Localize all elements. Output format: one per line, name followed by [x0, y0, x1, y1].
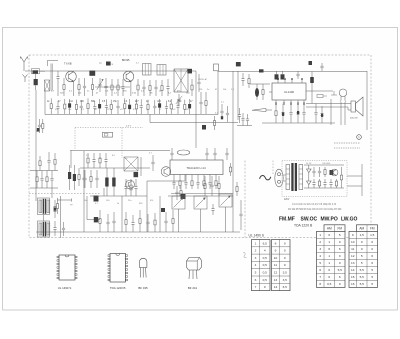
svg-text:0,5: 0,5	[263, 256, 268, 260]
pot P2	[172, 196, 185, 209]
electrolytic Eb3	[68, 103, 71, 107]
res right a	[236, 182, 238, 187]
resistor R8	[161, 80, 163, 86]
ground rail top section	[45, 114, 218, 116]
svg-text:11: 11	[274, 263, 277, 267]
earphone jack	[331, 94, 337, 96]
filter cap C32	[319, 167, 321, 171]
package UL1490S	[59, 255, 75, 280]
res comp L3	[78, 168, 80, 175]
svg-text:4: 4	[255, 263, 257, 267]
wire y219	[86, 196, 88, 220]
left col blip	[37, 128, 40, 132]
dark cap above IC a	[275, 74, 279, 79]
U2 pin 7	[209, 175, 211, 178]
svg-text:5,5: 5,5	[360, 282, 365, 286]
res right of IC	[230, 163, 232, 167]
decoupling C24	[290, 104, 292, 113]
svg-text:3,5: 3,5	[283, 271, 288, 275]
U1 top pin 1	[277, 79, 279, 83]
cap Ct1	[93, 153, 95, 160]
schematic dashed frame	[29, 55, 371, 238]
cap C9b	[198, 74, 200, 82]
res R32	[324, 167, 326, 170]
cap bottom mid	[165, 212, 167, 221]
cap Cp2	[185, 178, 187, 183]
svg-text:BF195: BF195	[122, 59, 130, 62]
xcross transformer	[124, 157, 138, 171]
svg-text:1,5: 1,5	[370, 233, 375, 237]
dark res a	[105, 178, 108, 187]
capacitor C8	[167, 79, 169, 87]
svg-text:0: 0	[284, 241, 286, 245]
pot P3	[194, 196, 207, 209]
svg-text:6,5: 6,5	[263, 241, 268, 245]
svg-text:7: 7	[319, 275, 321, 279]
capacitor C13	[239, 108, 241, 115]
svg-text:TDA1220 U-14: TDA1220 U-14	[186, 166, 206, 170]
transformer core	[291, 163, 293, 191]
svg-text:1: 1	[328, 261, 330, 265]
input electrolytic	[255, 88, 259, 97]
wire v218	[217, 72, 219, 115]
capacitor C11	[221, 104, 223, 111]
capacitor C2	[57, 71, 59, 77]
dark blob e	[181, 194, 186, 199]
audio ground rail	[262, 122, 335, 124]
left rail a	[30, 170, 58, 172]
svg-text:11: 11	[351, 247, 354, 251]
earphone legs long	[340, 102, 342, 125]
res Rv1	[130, 179, 132, 185]
capacitor Cb1	[57, 101, 59, 107]
resistor Rb2	[64, 99, 66, 104]
electrolytic above U2	[177, 150, 190, 155]
wire rail drop a	[44, 90, 46, 115]
svg-text:6: 6	[328, 247, 330, 251]
osc transformer TR1	[174, 69, 188, 92]
cluster pins right	[176, 186, 178, 192]
electrolytic blob 3	[236, 62, 241, 66]
svg-text:4: 4	[264, 249, 266, 253]
package BF195	[140, 258, 147, 267]
wire v84	[83, 151, 85, 232]
table UL1490S left half	[252, 240, 271, 291]
svg-text:6: 6	[328, 233, 330, 237]
rect diode D2	[307, 169, 312, 173]
svg-text:BF 195: BF 195	[138, 286, 148, 290]
filter cap C34	[330, 179, 332, 183]
svg-text:6,5: 6,5	[283, 285, 288, 289]
wire v312	[311, 72, 313, 104]
cap Cv0	[125, 179, 127, 187]
U2 pin 6	[203, 175, 205, 178]
wire plug	[283, 174, 285, 176]
filter cap C31	[313, 179, 315, 183]
svg-text:13: 13	[351, 261, 355, 265]
dotted drop mid	[121, 128, 123, 159]
U2 pin 3	[185, 175, 187, 178]
right box border	[366, 71, 368, 130]
IF can 1	[143, 64, 152, 76]
svg-text:6: 6	[371, 254, 373, 258]
capacitor Cb5	[80, 100, 82, 106]
svg-text:4: 4	[319, 254, 321, 258]
comp edge b	[63, 222, 65, 228]
cap C27	[321, 106, 323, 114]
wire right mid	[330, 99, 332, 125]
svg-text:AM: AM	[359, 226, 364, 230]
left rail b	[30, 187, 58, 189]
left col comp low	[39, 156, 41, 161]
dark blob low	[202, 125, 206, 130]
res R33	[336, 179, 338, 181]
svg-text:8: 8	[319, 282, 321, 286]
cap right b	[240, 200, 242, 214]
component above rail	[214, 64, 219, 71]
svg-text:SW.OC: SW.OC	[301, 217, 318, 223]
svg-text:8: 8	[275, 241, 277, 245]
U2 pin 8	[215, 175, 217, 178]
IC U2 TDA1220	[170, 160, 223, 175]
svg-text:3: 3	[319, 247, 321, 251]
IF transformer A	[38, 198, 50, 215]
component above rail right	[321, 63, 323, 66]
res bottom c	[154, 213, 156, 220]
svg-text:1k: 1k	[117, 203, 119, 205]
cap above U2 c	[214, 148, 216, 153]
svg-text:AM: AM	[327, 226, 332, 230]
U1 bottom pin 8	[297, 100, 299, 104]
table TDA left half	[317, 231, 346, 287]
svg-text:1: 1	[328, 240, 330, 244]
capacitor Cb21	[177, 99, 179, 106]
table TDA header right	[357, 225, 378, 232]
cap Cu0	[84, 170, 86, 178]
svg-text:UL 1490 S: UL 1490 S	[249, 233, 265, 237]
resistor R3	[92, 78, 94, 85]
wire main top rail B	[218, 71, 368, 73]
open frame	[147, 180, 185, 182]
cap above U2 b	[206, 148, 208, 153]
decoupling C25	[297, 104, 299, 113]
svg-text:0: 0	[284, 256, 286, 260]
svg-text:0: 0	[371, 240, 373, 244]
dark cap above IC b	[281, 74, 285, 79]
U2 pin 1	[173, 175, 175, 178]
svg-text:0: 0	[339, 261, 341, 265]
cap bottom b2	[132, 215, 134, 223]
package TDA1220B	[110, 254, 126, 283]
hand mark	[243, 252, 247, 257]
svg-text:FM: FM	[337, 226, 342, 230]
cap Cu2	[96, 170, 98, 178]
svg-text:5: 5	[371, 282, 373, 286]
left col cap	[39, 119, 41, 125]
svg-text:9: 9	[275, 249, 277, 253]
antenna	[21, 57, 28, 72]
resistor Rb22	[184, 100, 186, 105]
wire bottom drops	[121, 196, 123, 232]
U1 bottom pin 9	[303, 100, 305, 104]
electrolytic Eb23	[188, 104, 191, 108]
dark blob mid	[161, 208, 165, 212]
svg-text:5: 5	[319, 261, 321, 265]
U1 bottom pin 7	[290, 100, 292, 104]
svg-text:5: 5	[255, 271, 257, 275]
res RL0	[36, 171, 38, 177]
svg-text:5: 5	[361, 261, 363, 265]
res R31	[319, 179, 321, 181]
svg-text:FM: FM	[370, 226, 375, 230]
capacitor C20	[242, 73, 244, 79]
svg-text:0: 0	[284, 263, 286, 267]
rail lower mid	[150, 122, 238, 124]
input res	[262, 84, 264, 90]
cap right of IC	[226, 148, 228, 153]
svg-text:4Ω0,5W: 4Ω0,5W	[350, 117, 358, 119]
package BF241	[187, 258, 202, 271]
cap low b	[247, 114, 249, 119]
U1 top pin 2	[284, 79, 286, 83]
audio IC U1 UL1490	[272, 83, 306, 100]
svg-text:0: 0	[284, 249, 286, 253]
wire c2 down	[57, 84, 59, 96]
dashed divider power section	[244, 161, 246, 238]
svg-text:OSCILLAT: OSCILLAT	[198, 78, 208, 81]
res Rt0	[87, 153, 89, 158]
svg-text:6: 6	[255, 278, 257, 282]
svg-text:1,5: 1,5	[360, 233, 365, 237]
wire out top	[306, 90, 333, 92]
dark psu blob	[330, 170, 334, 175]
pot P4	[219, 194, 232, 207]
svg-text:16: 16	[351, 282, 355, 286]
wire T1 emitter	[72, 81, 74, 96]
left col res	[42, 119, 44, 124]
blob on rail	[259, 69, 264, 72]
resistor Rb14	[135, 99, 137, 104]
svg-text:0: 0	[371, 247, 373, 251]
wire drop to lower rail	[149, 115, 151, 123]
wire osc drop	[195, 71, 197, 123]
side comp col a	[54, 200, 56, 207]
cap bottom a2	[113, 212, 115, 221]
plug	[275, 169, 283, 187]
dark comp L2	[73, 174, 76, 181]
svg-text:5,5: 5,5	[338, 268, 343, 272]
dark blob d	[134, 172, 139, 177]
svg-text:UL1490: UL1490	[284, 90, 295, 94]
dark comp L5	[94, 217, 98, 222]
svg-text:D1 D2: D1 D2	[306, 163, 311, 165]
svg-text:C1-C4 10n C2 22n C3 4n7 C5 100: C1-C4 10n C2 22n C3 4n7 C5 100p R1 4,7k	[292, 204, 337, 206]
capacitor Cb7	[94, 101, 96, 107]
table UL1490S right half	[272, 240, 291, 291]
cap above rail L	[48, 152, 50, 160]
svg-text:1: 1	[319, 233, 321, 237]
svg-text:6: 6	[339, 275, 341, 279]
svg-text:7: 7	[255, 285, 257, 289]
svg-text:10n: 10n	[84, 200, 87, 202]
cap low a	[242, 113, 244, 118]
svg-text:14: 14	[351, 268, 355, 272]
wire left v60	[60, 196, 62, 238]
svg-text:T 6 KB: T 6 KB	[64, 63, 72, 66]
U2 pin 5	[197, 175, 199, 178]
tuner ground rail	[90, 195, 147, 197]
tiny text row b	[334, 147, 360, 149]
wire stub y200	[57, 199, 72, 201]
transformer primary	[286, 165, 290, 190]
res above rail L	[54, 153, 56, 159]
resistor Rb6	[87, 98, 89, 103]
svg-text:4,5 V: 4,5 V	[126, 126, 132, 128]
capacitor C4	[105, 78, 107, 86]
cap CL3	[51, 171, 53, 179]
svg-text:47k: 47k	[150, 200, 153, 202]
svg-text:6: 6	[328, 268, 330, 272]
U1 bottom pin 5	[275, 100, 277, 104]
res Rp5	[203, 178, 205, 181]
table TDA header left	[324, 225, 345, 232]
power rail top	[304, 164, 344, 166]
svg-text:2: 2	[255, 249, 257, 253]
svg-text:LW.GO: LW.GO	[341, 217, 358, 223]
capacitor C7	[155, 80, 157, 87]
resistor R5	[117, 79, 119, 85]
capacitor Cb9	[105, 99, 107, 106]
svg-text:TDA 1220 B: TDA 1220 B	[110, 286, 126, 290]
trim capacitor CV2	[178, 94, 180, 99]
coil L1	[33, 70, 39, 73]
svg-text:R4 10k R5 560 R6 8,2k C8-C9 47: R4 10k R5 560 R6 8,2k C8-C9 47n C10 100µ…	[288, 209, 342, 211]
bottom rail	[36, 231, 240, 233]
capacitor C5	[122, 79, 124, 87]
capacitor Cb17	[154, 100, 156, 106]
U2 pin 4	[191, 175, 193, 178]
IF can 2	[157, 65, 166, 76]
decoupling C25b	[303, 104, 305, 113]
decoupling C22	[282, 104, 284, 113]
svg-text:0: 0	[339, 240, 341, 244]
resistor Rb16	[147, 100, 149, 105]
wire T2 emitter	[130, 81, 132, 96]
capacitor C6	[143, 80, 145, 87]
transformer secondary	[299, 165, 303, 190]
comp edge a	[57, 198, 59, 204]
dotted line mid	[75, 127, 143, 129]
svg-text:5: 5	[339, 233, 341, 237]
rect diode D3	[307, 181, 312, 185]
svg-text:BF 241: BF 241	[188, 286, 198, 290]
svg-text:1: 1	[255, 241, 257, 245]
svg-text:0,5: 0,5	[263, 263, 268, 267]
capacitor Cb11	[117, 100, 119, 106]
svg-text:UL 1490 S: UL 1490 S	[58, 286, 72, 290]
res RL2	[46, 171, 48, 177]
wire main top rail A	[25, 70, 196, 72]
resistor Rb20	[170, 99, 172, 104]
wire x196 to U2	[195, 123, 197, 149]
cap bottom a	[107, 214, 109, 222]
diode D1	[34, 79, 38, 85]
resistor R11b	[214, 116, 216, 121]
U1 top pin 4	[301, 79, 303, 83]
svg-text:0,5: 0,5	[263, 278, 268, 282]
resistor Rb4	[75, 100, 77, 105]
svg-text:0: 0	[361, 240, 363, 244]
res Rp1	[179, 178, 181, 181]
svg-text:10: 10	[351, 240, 355, 244]
cap CL1	[41, 171, 43, 179]
resistor R1	[63, 78, 65, 85]
base wire	[95, 86, 130, 88]
wire v141	[140, 157, 142, 176]
res Ru1	[90, 170, 92, 177]
resistor R6	[137, 79, 139, 85]
cap above U2 a	[171, 148, 173, 153]
dashed stub mains	[272, 161, 274, 175]
svg-text:5,5: 5,5	[360, 275, 365, 279]
reg transistor Q1	[331, 169, 338, 176]
cap left of IC	[152, 155, 154, 162]
power inner rail	[304, 187, 344, 189]
dotted drop left	[74, 128, 76, 151]
svg-text:6: 6	[371, 261, 373, 265]
wire input	[250, 83, 270, 85]
earphone	[339, 89, 347, 97]
svg-text:6: 6	[339, 247, 341, 251]
svg-text:1n: 1n	[125, 158, 127, 160]
tiny text row a	[334, 142, 360, 144]
capacitor Cb15	[140, 99, 142, 106]
cap Ct3	[105, 153, 107, 160]
AC symbol	[260, 175, 271, 179]
capacitor C12	[227, 106, 229, 113]
res bottom b	[125, 212, 127, 220]
psu dashed box	[282, 161, 347, 197]
capacitor C9	[200, 92, 202, 102]
svg-text:0,5: 0,5	[263, 271, 268, 275]
capacitor C3	[84, 78, 86, 86]
meter box	[103, 132, 113, 137]
volume wiper	[252, 108, 266, 111]
IF transformer B	[38, 221, 50, 237]
svg-text:13: 13	[274, 278, 278, 282]
svg-text:9: 9	[352, 233, 354, 237]
feedback cap Cf3	[297, 71, 299, 74]
svg-text:0: 0	[339, 282, 341, 286]
side comp col b	[54, 221, 56, 228]
resistor R2	[78, 78, 80, 85]
pot wire top	[171, 193, 233, 195]
dark blob c	[94, 196, 99, 202]
svg-text:1k: 1k	[146, 109, 148, 111]
U1 top pin 3	[291, 79, 293, 83]
electrolytic blob	[89, 71, 95, 76]
wire to speaker	[306, 103, 351, 105]
short gnd	[237, 125, 252, 127]
svg-text:MW.PO: MW.PO	[321, 217, 338, 223]
speaker LS	[351, 101, 356, 112]
filter cap C30	[313, 167, 315, 171]
resistor R7	[149, 80, 151, 86]
resistor Rb12	[124, 98, 126, 103]
svg-text:6: 6	[319, 268, 321, 272]
res bottom b3	[139, 210, 141, 219]
wire v104	[103, 188, 105, 196]
